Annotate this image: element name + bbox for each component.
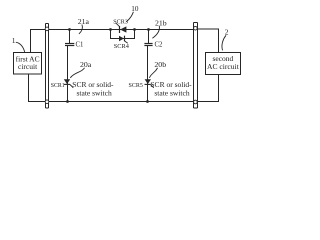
plug contact top-right [194,26,198,30]
wire: branch 20b from C2 down to bottom rail [147,46,149,102]
capacitor C2 [144,30,163,49]
wire: bottom rail center segment [49,101,193,103]
svg-text:2: 2 [225,27,229,36]
svg-text:circuit: circuit [18,62,38,71]
svg-text:20b: 20b [154,60,166,69]
plug connector left (double-line with contacts) [45,24,49,109]
svg-text:SCR3: SCR3 [113,19,128,25]
node: junction dot C2 branch on top rail [147,28,150,31]
svg-text:20a: 20a [80,60,92,69]
svg-text:SCR1: SCR1 [51,83,65,89]
wire: top rail segment 21a/21b [49,29,193,31]
svg-text:10: 10 [131,5,139,13]
node: junction dot SCR5 branch on bottom rail [146,100,149,103]
thyristor SCR1 (branch 20a, pointing down) [64,79,74,88]
wire: branch 20a from C1 down to bottom rail [67,46,69,102]
svg-text:C2: C2 [155,42,164,49]
thyristor SCR5 (branch 20b, pointing down) [145,79,154,88]
wire: bottom-left lead from box 1 down to bottom rail [29,74,46,102]
capacitor C1 [65,30,83,49]
svg-text:state switch: state switch [77,89,112,98]
svg-text:SCR4: SCR4 [114,43,130,50]
first AC circuit box 1 [14,53,42,75]
svg-text:21a: 21a [78,17,90,26]
svg-text:SCR5: SCR5 [129,83,143,89]
wire: anti-parallel SCR loop below top rail [111,30,135,39]
wire: top rail right segment and lead down to box 2 [198,29,219,52]
label 2 with leader [222,27,229,50]
svg-text:state switch: state switch [154,89,189,98]
wire: C2 top lead [148,30,150,44]
thyristor SCR3 (on top rail, pointing left) [116,23,127,33]
label 20a with leader [70,60,91,78]
node: junction dot SCR1 branch on bottom rail [66,100,69,103]
thyristor SCR4 (on loop branch, pointing right) [119,36,128,44]
wire: top-left lead from box 1 up to top rail [31,30,46,53]
svg-text:21b: 21b [155,18,167,27]
node: junction dot C1 branch on top rail [68,28,71,31]
svg-text:C1: C1 [76,42,84,49]
label 20b with leader [149,60,166,78]
node: junction dot SCR loop right [133,28,136,31]
annotation: SCR or solid-state switch (left) [72,80,114,98]
label 1 with leader [12,36,25,52]
plug contact bottom-right [194,100,198,104]
wire: C1 top lead [69,30,71,44]
label 21a with leader [78,17,90,34]
annotation: SCR or solid-state switch (right) [150,80,192,98]
plug contact bottom-left [45,100,49,104]
wire: bottom rail right segment and lead up to box 2 [198,75,219,102]
label 21b with leader [152,18,166,38]
plug contact top-left [45,27,49,31]
second AC circuit box 2 [206,53,241,75]
node: junction dot SCR loop left [109,28,112,31]
svg-text:AC circuit: AC circuit [207,62,240,71]
label 10 with leader [126,5,139,22]
plug connector right (double-line with contacts) [194,23,198,109]
svg-text:1: 1 [12,36,16,45]
